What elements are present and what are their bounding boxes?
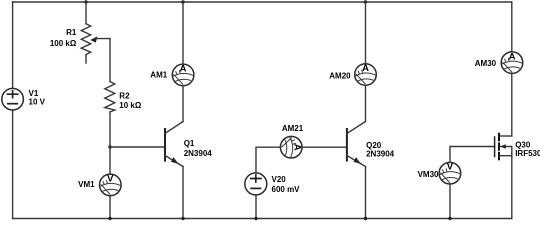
node bottom junction Q20 <box>364 217 367 220</box>
svg-text:Q20: Q20 <box>366 141 382 150</box>
svg-text:V: V <box>107 173 114 184</box>
label R1 value <box>50 28 77 48</box>
node base junction <box>108 145 111 148</box>
ammeter AM30 <box>501 51 523 73</box>
svg-text:600 mV: 600 mV <box>272 185 301 194</box>
svg-text:V20: V20 <box>272 175 287 184</box>
svg-text:AM30: AM30 <box>475 59 497 68</box>
ammeter AM20 <box>355 63 377 85</box>
svg-text:100 kΩ: 100 kΩ <box>50 39 77 48</box>
node bottom junction Q1 <box>181 217 184 220</box>
wire top rail <box>13 1 512 3</box>
wire top rail to R1 <box>85 2 87 24</box>
transistor Q20 <box>347 122 366 167</box>
transistor Q30 (MOSFET) <box>495 134 512 160</box>
wire Q30 source to bottom rail <box>511 147 513 219</box>
voltmeter VM1 <box>100 173 122 195</box>
svg-text:VM30: VM30 <box>418 170 439 179</box>
label V1 value <box>29 89 46 107</box>
svg-text:VM1: VM1 <box>78 180 95 189</box>
wire right rail upper (top rail to AM30) <box>511 2 513 52</box>
wire V20 to bottom rail <box>255 195 257 219</box>
wire AM21 to Q20 base <box>302 146 347 148</box>
ammeter AM1 <box>172 64 194 86</box>
voltage source V20 <box>245 173 267 195</box>
wire VM30 to Q30 gate <box>450 147 495 163</box>
label Q1 value <box>184 139 213 158</box>
label V20 value <box>272 175 301 194</box>
svg-text:2N3904: 2N3904 <box>366 150 395 159</box>
wire Q1 emitter to bottom rail <box>182 167 184 219</box>
wire top rail to AM1 <box>182 2 184 64</box>
svg-text:IRF530: IRF530 <box>515 149 540 158</box>
svg-text:R1: R1 <box>66 28 77 37</box>
node top junction at R1 column <box>84 0 87 3</box>
svg-text:Q1: Q1 <box>184 139 195 148</box>
voltmeter VM30 <box>439 162 461 184</box>
svg-text:R2: R2 <box>119 91 130 100</box>
svg-text:2N3904: 2N3904 <box>184 149 213 158</box>
resistor R2 <box>105 82 115 113</box>
label Q20 value <box>366 141 395 159</box>
wire AM30 to Q30 drain <box>511 73 513 136</box>
node top junction AM1 column <box>181 0 184 3</box>
voltage source V1 <box>2 88 24 110</box>
svg-text:10 V: 10 V <box>29 98 46 107</box>
svg-text:AM20: AM20 <box>329 71 351 80</box>
wire VM30 to bottom rail <box>449 184 451 219</box>
svg-text:V: V <box>447 162 454 173</box>
label R2 value <box>119 91 142 109</box>
wire bottom rail <box>13 218 512 220</box>
svg-text:AM1: AM1 <box>150 71 167 80</box>
wire left rail upper (top rail to V1) <box>12 2 14 88</box>
wire R2 to VM1 <box>109 112 111 174</box>
wire wiper down to R2 <box>109 39 111 82</box>
node bottom junction VM1 <box>108 217 111 220</box>
wire left rail lower (V1 to bottom rail) <box>12 110 14 219</box>
wire AM1 to Q1 collector <box>182 86 184 122</box>
wire V20 column top (AM21 corner) <box>256 147 280 173</box>
svg-text:AM21: AM21 <box>282 124 304 133</box>
ammeter AM21 <box>280 136 302 158</box>
label Q30 value <box>515 140 540 158</box>
svg-text:10 kΩ: 10 kΩ <box>119 101 142 110</box>
wire AM20 to Q20 collector <box>365 85 367 121</box>
node bottom junction V20 <box>254 217 257 220</box>
node bottom junction VM30 <box>448 217 451 220</box>
resistor R1 (potentiometer) <box>81 24 110 63</box>
wire VM1 to bottom rail <box>109 196 111 219</box>
transistor Q1 <box>165 122 183 167</box>
wire Q20 emitter to bottom rail <box>365 167 367 219</box>
wire top rail to AM20 <box>365 2 367 64</box>
wire base Q1 <box>110 146 165 148</box>
node top junction AM20 column <box>364 0 367 3</box>
